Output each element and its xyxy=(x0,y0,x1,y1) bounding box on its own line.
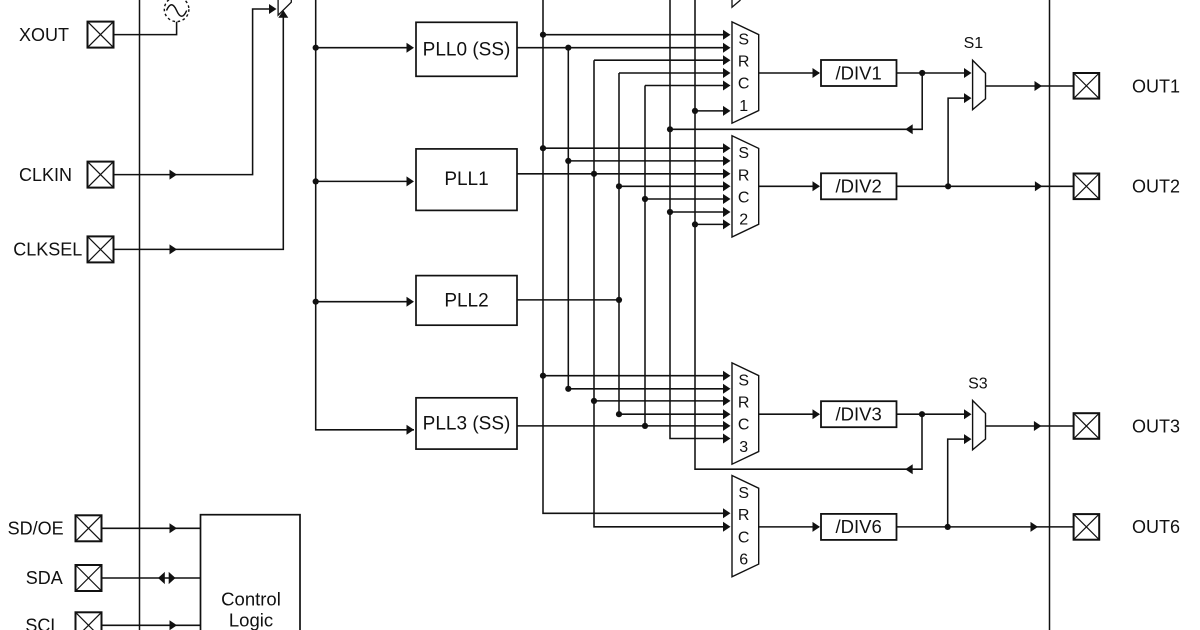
arrow PLL3 input xyxy=(407,425,415,435)
svg-text:S: S xyxy=(738,372,749,389)
wire PLL0 input xyxy=(316,47,410,49)
junction fb1-SRC2 row6 xyxy=(667,209,673,215)
wire CLKSEL to mux M1 select xyxy=(114,13,284,249)
wire DIV2 to OUT2 xyxy=(897,185,1074,187)
junction fb3-SRC1 row6 xyxy=(692,108,698,114)
junction fb3-DIV3 out xyxy=(919,411,925,417)
junction PLL2-SRC2 row4 xyxy=(616,183,622,189)
junction PLL1 branch xyxy=(591,171,597,177)
wire SCL to control logic xyxy=(101,624,201,626)
wire PLL2 output xyxy=(517,299,619,301)
junction PLL3-SRC2 row5 xyxy=(642,196,648,202)
wire SRC3 row1 xyxy=(543,375,729,377)
PLL1 distribution vertical x594 to SRC6 input 2 xyxy=(594,60,729,527)
svg-text:PLL3 (SS): PLL3 (SS) xyxy=(423,414,511,435)
svg-text:/DIV6: /DIV6 xyxy=(836,516,882,537)
pll PLL1 xyxy=(416,149,517,211)
wire SRC2 row7 xyxy=(695,223,729,225)
svg-text:Logic: Logic xyxy=(229,610,273,630)
svg-text:C: C xyxy=(738,417,750,434)
junction spine-PLL2 xyxy=(313,299,319,305)
pin OUT6 xyxy=(1074,514,1100,540)
mux SRC2 xyxy=(732,136,759,237)
oscillator Y1 (crystal osc, dashed circle with sine) xyxy=(164,0,189,22)
wire SRC3 to DIV3 xyxy=(759,413,819,415)
feedback DIV1 wire xyxy=(670,73,922,129)
svg-text:XOUT: XOUT xyxy=(19,25,69,45)
junction DIV6-S3 xyxy=(945,524,951,530)
mux M2 above SRC1 (cropped sliver) xyxy=(732,0,741,7)
wire PLL3 out to SRC3 row5 xyxy=(517,425,729,427)
svg-text:R: R xyxy=(738,507,750,524)
junction PLL1-SRC3 row3 xyxy=(591,398,597,404)
svg-text:PLL1: PLL1 xyxy=(444,169,488,190)
svg-text:PLL2: PLL2 xyxy=(444,290,488,311)
divider DIV3 xyxy=(821,401,897,427)
PLL2 distribution vertical x619 xyxy=(618,73,620,414)
wire SRC3 row3 xyxy=(594,400,729,402)
junction spine-PLL0 xyxy=(313,45,319,51)
wire SRC3 row4 xyxy=(619,413,729,415)
wire SRC1 to DIV1 xyxy=(759,72,819,74)
wire DIV2 to S1 input 2 xyxy=(948,98,969,186)
wire DIV1 to S1 input 1 xyxy=(897,72,970,74)
divider DIV1 xyxy=(821,60,897,86)
wire PLL0 out to SRC1 row2 xyxy=(517,47,729,49)
svg-text:6: 6 xyxy=(739,552,748,569)
pin OUT2 xyxy=(1074,174,1100,200)
wire SRC6 to DIV6 xyxy=(759,526,819,528)
wire PLL2 input xyxy=(316,301,410,303)
mux SRC1 xyxy=(732,22,759,123)
svg-text:OUT1: OUT1 xyxy=(1132,76,1180,96)
junction fb1 join xyxy=(667,126,673,132)
svg-text:R: R xyxy=(738,395,750,412)
wire SRC2 row5 xyxy=(645,198,729,200)
junction bypass-SRC3 row1 xyxy=(540,373,546,379)
pin OUT1 xyxy=(1074,73,1100,99)
pin OUT3 xyxy=(1074,413,1100,439)
wire PLL1 input xyxy=(316,180,410,182)
svg-text:PLL0 (SS): PLL0 (SS) xyxy=(423,39,511,60)
wire DIV6 to OUT6 xyxy=(897,526,1074,528)
feedback vertical x670 (from DIV1) to SRC3 row6 xyxy=(670,0,729,439)
junction DIV2-S1 xyxy=(945,183,951,189)
bypass clock vertical x543 to SRC6 input 1 xyxy=(543,0,729,513)
wire SRC1 row1 xyxy=(543,34,729,36)
pin SCL xyxy=(76,612,102,630)
junction bypass-SRC1 row1 xyxy=(540,32,546,38)
pin XOUT xyxy=(88,22,114,48)
wire S1 to OUT1 xyxy=(986,85,1074,87)
junction PLL0 branch xyxy=(565,45,571,51)
svg-text:3: 3 xyxy=(739,439,748,456)
junction PLL2-SRC3 row4 xyxy=(616,411,622,417)
wire SRC1 row5 xyxy=(645,85,729,87)
pin CLKSEL xyxy=(88,236,114,262)
junction PLL0-SRC2 row2 xyxy=(565,158,571,164)
wire PLL1 out to SRC2 row3 xyxy=(517,173,729,175)
svg-text:S: S xyxy=(738,145,749,162)
wire SRC1 row4 xyxy=(619,72,729,74)
svg-text:/DIV3: /DIV3 xyxy=(836,404,882,425)
svg-text:OUT2: OUT2 xyxy=(1132,177,1180,197)
wire CLKIN to mux M1 xyxy=(114,9,275,175)
divider DIV6 xyxy=(821,514,897,540)
PLL0 distribution vertical x568 xyxy=(567,48,569,389)
wire SRC2 row6 xyxy=(670,211,729,213)
pll PLL0 xyxy=(416,22,517,76)
wire DIV3 to S3 input 1 xyxy=(897,413,970,415)
svg-text:/DIV2: /DIV2 xyxy=(836,176,882,197)
junction DIV1 feedback xyxy=(919,70,925,76)
wire SDA to control logic (bidirectional) xyxy=(101,577,201,579)
junction PLL2 branch xyxy=(616,297,622,303)
svg-text:C: C xyxy=(738,190,750,207)
svg-text:R: R xyxy=(738,54,750,71)
divider DIV2 xyxy=(821,173,897,199)
svg-text:S3: S3 xyxy=(968,375,988,392)
wire SRC1 row3 xyxy=(594,59,729,61)
feedback vertical x695 (from DIV3) xyxy=(695,0,922,469)
svg-text:1: 1 xyxy=(739,98,748,115)
pll PLL2 xyxy=(416,276,517,326)
svg-text:S: S xyxy=(738,485,749,502)
svg-text:SDA: SDA xyxy=(26,568,63,588)
svg-text:C: C xyxy=(738,529,750,546)
wire SRC2 to DIV2 xyxy=(759,185,819,187)
svg-text:R: R xyxy=(738,167,750,184)
clock spine to PLL inputs xyxy=(316,0,414,430)
mux SRC6 xyxy=(732,476,759,577)
svg-text:SCL: SCL xyxy=(25,615,60,630)
wire DIV6 to S3 input 2 xyxy=(948,439,970,527)
svg-text:CLKIN: CLKIN xyxy=(19,165,72,185)
PLL3 distribution vertical x645 xyxy=(644,86,646,426)
wire SRC2 row2 xyxy=(568,160,728,162)
pin SD/OE xyxy=(76,515,102,541)
wire SRC1 row6 xyxy=(695,110,729,112)
junction spine-PLL1 xyxy=(313,178,319,184)
svg-text:S1: S1 xyxy=(964,35,984,52)
svg-text:SD/OE: SD/OE xyxy=(8,518,64,538)
pin CLKIN xyxy=(88,162,114,188)
chip boundary left edge xyxy=(139,0,141,630)
svg-text:S: S xyxy=(738,31,749,48)
svg-text:OUT3: OUT3 xyxy=(1132,416,1180,436)
wire SRC2 row4 xyxy=(619,185,729,187)
junction bypass-SRC2 row1 xyxy=(540,145,546,151)
wire S3 to OUT3 xyxy=(986,425,1074,427)
svg-text:2: 2 xyxy=(739,212,748,229)
mux M1 clock-select (cropped at top) xyxy=(278,0,291,15)
wire SRC3 row2 xyxy=(568,388,728,390)
svg-text:Control: Control xyxy=(221,588,281,609)
pll PLL3 xyxy=(416,398,517,449)
wire SRC2 row1 xyxy=(543,147,729,149)
svg-text:CLKSEL: CLKSEL xyxy=(13,240,82,260)
pin SDA xyxy=(76,565,102,591)
mux S3 xyxy=(973,401,986,450)
wire XOUT pin to oscillator xyxy=(114,22,177,35)
mux S1 xyxy=(973,60,986,109)
chip boundary right edge xyxy=(1049,0,1051,630)
mux SRC3 xyxy=(732,363,759,464)
control logic U2 xyxy=(201,515,301,630)
junction fb3-SRC2 row7 xyxy=(692,221,698,227)
wire SD/OE to control logic xyxy=(101,527,201,529)
junction PLL3 branch xyxy=(642,423,648,429)
svg-text:OUT6: OUT6 xyxy=(1132,517,1180,537)
svg-text:C: C xyxy=(738,76,750,93)
svg-text:/DIV1: /DIV1 xyxy=(836,62,882,83)
junction PLL0-SRC3 row2 xyxy=(565,386,571,392)
